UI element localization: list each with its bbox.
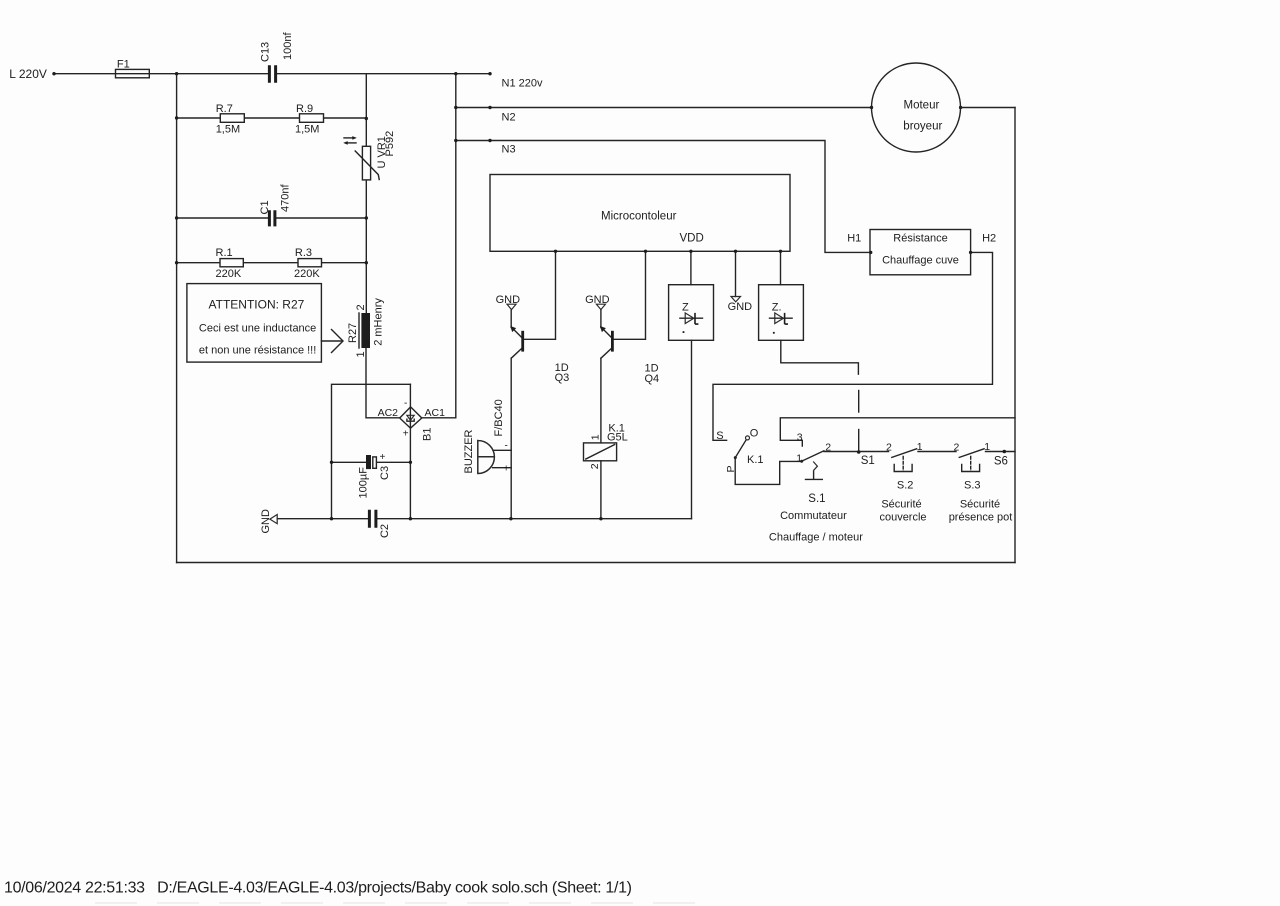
svg-text:Chauffage cuve: Chauffage cuve [882, 254, 959, 266]
wire N3 row to H1 [456, 141, 871, 253]
ground Q3 [496, 294, 521, 327]
bridge rectifier B1 [378, 398, 446, 441]
svg-text:S.3: S.3 [964, 479, 981, 491]
fuse F1 [116, 59, 150, 78]
svg-text:S.2: S.2 [897, 479, 914, 491]
wire bridge top link to C rail [332, 384, 411, 518]
inductor R27 2mHenry [347, 298, 385, 358]
wire Q4 collector to relay [600, 358, 602, 443]
spring S.1 [806, 462, 826, 506]
svg-text:R.7: R.7 [216, 103, 233, 115]
svg-text:H1: H1 [847, 233, 861, 245]
transistor Q4 [600, 326, 659, 385]
svg-text:AC1: AC1 [425, 407, 446, 419]
svg-text:Chauffage / moteur: Chauffage / moteur [769, 532, 863, 544]
svg-text:1,5M: 1,5M [295, 123, 319, 135]
wire buzzer stubs [493, 450, 512, 467]
svg-text:broyeur: broyeur [903, 121, 942, 133]
zener box Z1 [669, 285, 714, 341]
svg-text:Z.: Z. [772, 302, 782, 314]
svg-text:-: - [505, 441, 508, 452]
svg-text:1: 1 [589, 434, 601, 440]
svg-text:N2: N2 [502, 112, 516, 124]
switch S1 blade [796, 432, 875, 467]
svg-text:F1: F1 [117, 59, 130, 71]
wire micro pin2 to Q4 base [614, 251, 646, 339]
svg-text:Sécurité: Sécurité [881, 498, 921, 510]
wire right rail [1014, 108, 1016, 563]
svg-text:Z: Z [682, 302, 689, 314]
svg-text:1: 1 [355, 351, 367, 357]
svg-text:Résistance: Résistance [893, 233, 947, 245]
svg-text:ATTENTION: R27: ATTENTION: R27 [209, 298, 305, 312]
svg-text:1: 1 [917, 441, 923, 453]
resistor R.9 [295, 103, 368, 135]
svg-text:2 mHenry: 2 mHenry [373, 298, 385, 346]
svg-text:BUZZER: BUZZER [463, 429, 475, 473]
wire VR1 branch [365, 74, 367, 313]
svg-text:N3: N3 [502, 144, 516, 156]
wire H2 to S of K1 [713, 252, 993, 440]
node N3 [454, 139, 515, 156]
svg-text:AC2: AC2 [378, 407, 399, 419]
svg-text:F/BC40: F/BC40 [493, 399, 505, 436]
ground left [260, 509, 277, 534]
svg-text:2: 2 [355, 304, 367, 310]
svg-text:R27: R27 [347, 323, 359, 343]
svg-text:10/06/2024 22:51:33 D:/EAGLE: 10/06/2024 22:51:33 D:/EAGLE-4.03/EAGLE-… [4, 880, 632, 897]
svg-text:P: P [725, 465, 737, 472]
wire bridge vertical minus plus [409, 384, 411, 518]
resistor R.3 [294, 247, 368, 280]
svg-text:+: + [403, 429, 409, 440]
wire micro pin5 to Z2 [780, 251, 782, 284]
capacitor C3 100uF [330, 452, 412, 499]
wire micro pin3 to Z1 [690, 251, 692, 284]
svg-text:100µF: 100µF [357, 467, 369, 499]
svg-text:Commutateur: Commutateur [780, 510, 847, 522]
svg-text:présence pot: présence pot [949, 511, 1013, 523]
footer plot info [4, 880, 632, 897]
wire N2 row [456, 107, 872, 109]
svg-text:C1: C1 [259, 200, 271, 214]
ground micro [728, 297, 753, 314]
microcontroller U1 box [490, 175, 790, 254]
wire Q3 collector down [510, 358, 512, 519]
svg-text:O: O [750, 428, 759, 440]
note box ATTENTION R27 [187, 284, 343, 363]
svg-text:2: 2 [825, 442, 831, 454]
wire vertical bus to AC1 [422, 74, 456, 418]
wire Z2 bottom to link [781, 340, 859, 374]
switch K.1 commutateur pole [716, 428, 763, 473]
svg-text:et non une résistance !!!: et non une résistance !!! [199, 345, 316, 357]
svg-text:S1: S1 [861, 455, 875, 467]
resistor R.1 [175, 247, 243, 280]
label commutateur [769, 510, 863, 544]
wire micro pin1 to Q3 base [524, 251, 556, 339]
svg-text:3: 3 [797, 432, 803, 444]
svg-text:220K: 220K [216, 268, 242, 280]
node H1 [847, 233, 872, 254]
svg-text:S.1: S.1 [808, 493, 825, 505]
wire relay pin2 down [600, 461, 602, 519]
wire R1 row [177, 262, 367, 264]
motor M1 Moteur broyeur [870, 63, 1015, 152]
svg-text:L 220V: L 220V [9, 67, 47, 81]
resistor R.7 [175, 103, 244, 135]
node S6 [994, 450, 1008, 468]
svg-text:470nf: 470nf [280, 184, 292, 212]
wire S1 to S2 row [824, 451, 889, 453]
wire R7 row [177, 117, 367, 119]
svg-text:N1 220v: N1 220v [502, 78, 543, 90]
zener box Z2 [759, 285, 804, 341]
wire row to S1 pin3 [780, 418, 1015, 446]
wire dashed relay link [858, 391, 860, 453]
switch S.3 securite presence pot [949, 441, 1013, 523]
svg-text:couvercle: couvercle [879, 511, 926, 523]
wire C3 row [332, 461, 411, 463]
svg-text:Microcontoleur: Microcontoleur [601, 211, 677, 223]
ground Q4 [585, 294, 610, 327]
svg-text:C3: C3 [379, 466, 391, 480]
node N2 [454, 106, 515, 124]
svg-text:S6: S6 [994, 455, 1008, 467]
svg-text:1: 1 [984, 441, 990, 453]
svg-text:S: S [716, 430, 723, 442]
svg-text:Ceci est une inductance: Ceci est une inductance [199, 323, 316, 335]
varistor VR1 P592 [343, 131, 396, 180]
switch S.2 securite couvercle [879, 441, 926, 523]
wire left rail [176, 74, 178, 563]
wire Z1 bottom [691, 340, 693, 518]
svg-text:GND: GND [728, 301, 753, 313]
svg-text:Sécurité: Sécurité [960, 498, 1000, 510]
transistor Q3 [510, 326, 569, 384]
capacitor C13 [260, 32, 295, 83]
svg-text:+: + [503, 464, 509, 475]
svg-text:C2: C2 [379, 524, 391, 538]
svg-text:220K: 220K [294, 268, 320, 280]
buzzer [463, 399, 513, 520]
wire C2 GND row [277, 518, 691, 520]
svg-text:K.1: K.1 [747, 454, 764, 466]
wire R27 to bridge AC2 [366, 348, 400, 418]
svg-text:Q3: Q3 [555, 372, 570, 384]
svg-text:1: 1 [796, 453, 802, 465]
svg-text:H2: H2 [982, 233, 996, 245]
scan smudge line [95, 902, 700, 904]
svg-text:Q4: Q4 [645, 373, 660, 385]
svg-text:R.9: R.9 [296, 103, 313, 115]
svg-text:R.3: R.3 [295, 247, 312, 259]
svg-text:Moteur: Moteur [904, 99, 940, 111]
svg-text:B1: B1 [422, 428, 434, 441]
relay K.1 G5L [584, 422, 628, 520]
svg-text:G5L: G5L [607, 431, 628, 443]
wire S2 to S3 row [918, 451, 956, 453]
junction left rail top [175, 72, 178, 75]
svg-text:2: 2 [886, 442, 892, 454]
svg-text:+: + [380, 452, 386, 463]
wire bottom rail [177, 562, 1015, 564]
svg-text:-: - [404, 398, 407, 409]
capacitor C2 [330, 510, 412, 538]
svg-text:VDD: VDD [680, 232, 704, 244]
svg-text:C13: C13 [260, 42, 272, 62]
heater R-chauffe box [870, 230, 971, 275]
svg-text:100nf: 100nf [282, 32, 294, 60]
node H2 [969, 233, 996, 254]
node N1 220v [454, 72, 543, 90]
wire C1 row [177, 217, 367, 219]
svg-text:R.1: R.1 [216, 247, 233, 259]
svg-text:GND: GND [260, 509, 272, 534]
svg-text:1,5M: 1,5M [216, 123, 240, 135]
svg-text:2: 2 [589, 463, 601, 469]
capacitor C1 [175, 184, 368, 227]
wire micro pin4 to GND [735, 251, 737, 296]
wire K1 pole path [735, 458, 801, 485]
wire S3 to S6 right rail [986, 451, 1016, 453]
svg-text:2: 2 [954, 442, 960, 454]
node L 220V [9, 67, 55, 81]
svg-text:P592: P592 [384, 131, 396, 157]
wire top mains L rail [54, 73, 490, 75]
